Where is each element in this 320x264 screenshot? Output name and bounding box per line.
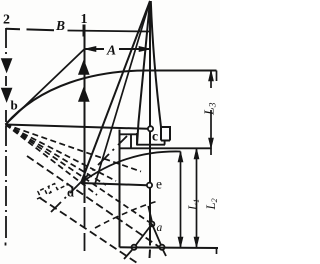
guide inner wall [130, 134, 132, 148]
point circle a [150, 222, 155, 227]
H1 top line y=71 [151, 70, 217, 72]
line d to e [81, 183, 147, 185]
slant line apex to d [81, 1, 150, 183]
dashed fan line b F3 [6, 125, 107, 186]
bottom line end tick [216, 248, 218, 254]
dashed fan line b to a [6, 125, 153, 225]
bottom circle left [131, 245, 136, 250]
L3 dimension line [210, 71, 212, 156]
line b to c [6, 125, 149, 129]
dashed fan line b F1 [6, 125, 142, 172]
wedge foot wall [136, 133, 138, 145]
arrow up 2 on line 1 [78, 87, 89, 102]
svg-text:L3: L3 [203, 102, 219, 116]
right ear [161, 127, 170, 141]
svg-text:c: c [152, 129, 158, 144]
dash-dot diagonal through d (rotated axis) [51, 136, 127, 212]
arrow up 1 on line 1 [78, 60, 89, 75]
svg-text:a: a [157, 222, 163, 234]
rotated guide dashed end with ears [37, 184, 69, 199]
dashed fan line b F2 [6, 125, 117, 182]
rotated guide dashed edge 1 [27, 156, 160, 248]
svg-text:L2: L2 [204, 198, 219, 211]
guide step line [120, 133, 138, 135]
top line end tick [216, 71, 218, 82]
bottom circle right [159, 245, 164, 250]
svg-text:e: e [156, 177, 162, 192]
svg-text:1: 1 [81, 12, 88, 27]
svg-text:L1: L1 [186, 199, 201, 211]
arrow down 1 on line 2 [1, 59, 12, 73]
svg-text:b: b [11, 98, 18, 113]
rotated wedge edge to bottom circle right [152, 224, 161, 245]
dashed arc below [95, 201, 158, 228]
svg-text:d: d [67, 186, 74, 200]
point circle e [147, 183, 152, 188]
bottom line of guide block [120, 246, 219, 249]
arrow down 2 on line 2 [1, 88, 12, 102]
slot floor [137, 144, 165, 146]
tick below 1 label [83, 25, 85, 37]
rotated guide dashed edge 2 [40, 198, 138, 264]
L2 dimension line [196, 148, 198, 247]
L1 dimension line [180, 152, 182, 248]
wire: horizontal dimension line B level, from corner of line 2 to follower stem [6, 29, 54, 30]
dimension A line with arrows [85, 48, 151, 50]
node 1: follower axis line 1 (vertical solid) [84, 25, 86, 204]
slant line apex to e-line [95, 1, 150, 184]
node 2: position line 2 (dash-dot vertical) [5, 28, 7, 122]
roller circle c [148, 126, 153, 131]
guide block left edge [119, 130, 121, 248]
dashed fan line b through d [6, 125, 98, 196]
line b to A start (steep) [6, 49, 85, 125]
follower axis vertical through c,e,a [149, 1, 151, 127]
rotated wedge edge to bottom circle left [136, 224, 153, 246]
step down right of floor [164, 141, 166, 145]
svg-text:A: A [106, 43, 116, 58]
arc d to guide top right [81, 151, 181, 183]
follower stem wedge: apex to bottom, left edge [137, 1, 150, 146]
rotated axis stub above a [148, 206, 152, 222]
svg-text:B: B [55, 18, 65, 33]
svg-text:2: 2 [3, 13, 10, 28]
arc trajectory from b up to stem top [6, 70, 151, 124]
follower stem wedge right edge [151, 1, 161, 127]
surface line to L3/L2 [120, 147, 212, 149]
